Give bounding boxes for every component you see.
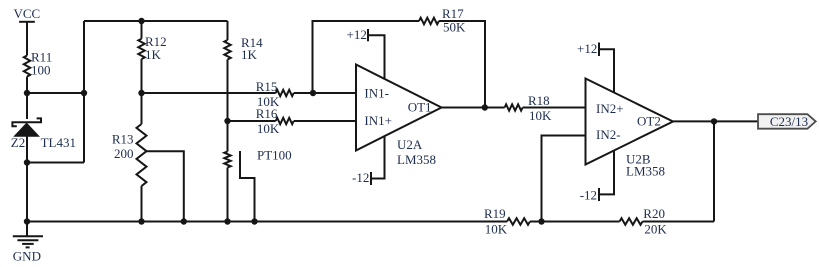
svg-text:OT1: OT1 [408,99,432,114]
svg-text:GND: GND [13,249,41,264]
svg-text:1K: 1K [145,47,162,62]
svg-text:TL431: TL431 [41,135,76,150]
svg-text:IN2+: IN2+ [596,101,624,116]
svg-text:IN2-: IN2- [596,127,621,142]
svg-text:IN1-: IN1- [364,86,389,101]
svg-text:10K: 10K [485,221,508,236]
svg-text:OT2: OT2 [637,114,661,129]
svg-text:PT100: PT100 [257,148,292,163]
svg-text:IN1+: IN1+ [364,113,392,128]
svg-text:20K: 20K [644,221,667,236]
svg-text:R13: R13 [112,132,134,147]
svg-text:1K: 1K [241,47,258,62]
svg-text:U2A: U2A [397,137,423,152]
svg-text:-12: -12 [580,188,597,203]
svg-text:R16: R16 [256,106,278,121]
svg-text:+12: +12 [347,27,367,42]
svg-text:R18: R18 [528,93,550,108]
svg-text:R20: R20 [643,206,665,221]
svg-text:-12: -12 [352,170,369,185]
svg-text:10K: 10K [529,108,552,123]
svg-text:R15: R15 [256,79,278,94]
svg-text:Z2: Z2 [11,135,25,150]
svg-text:10K: 10K [257,121,280,136]
svg-text:100: 100 [31,62,51,77]
svg-text:LM358: LM358 [626,163,665,178]
svg-text:50K: 50K [443,20,466,35]
svg-text:200: 200 [114,146,134,161]
svg-text:VCC: VCC [14,6,41,21]
svg-text:LM358: LM358 [397,152,436,167]
svg-text:C23/13: C23/13 [770,114,808,129]
svg-text:+12: +12 [577,41,597,56]
svg-text:R19: R19 [484,206,506,221]
